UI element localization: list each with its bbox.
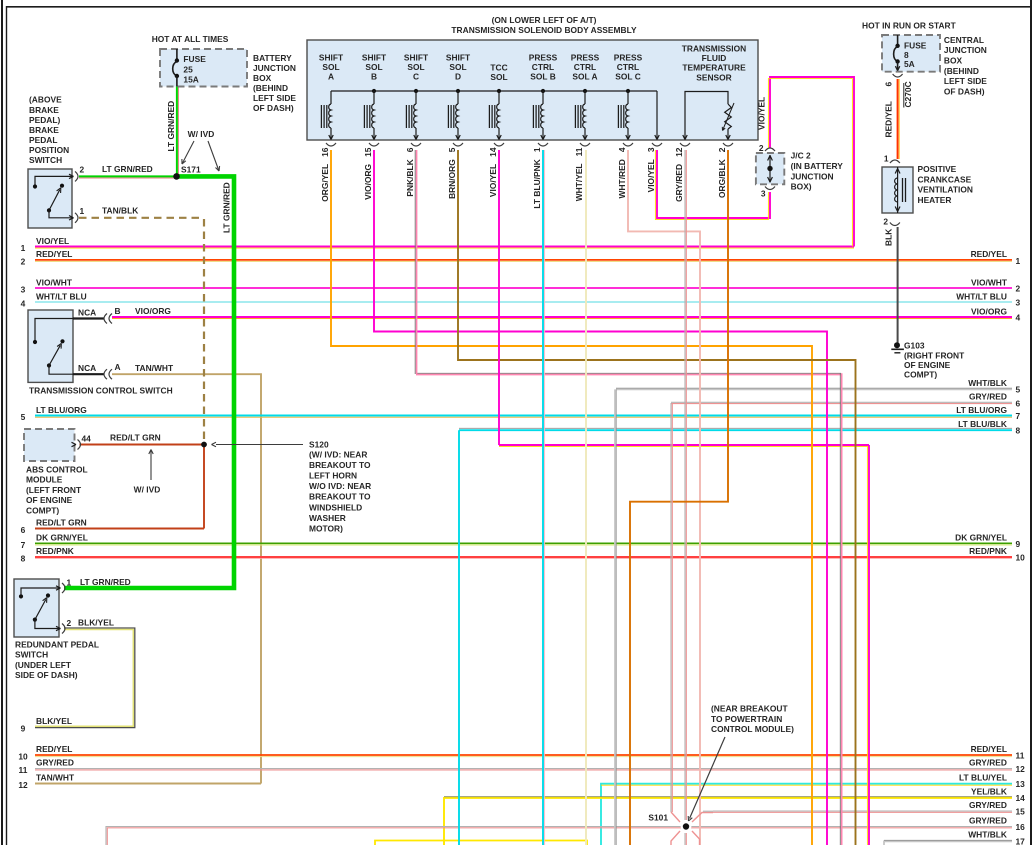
svg-text:TAN/WHT: TAN/WHT [36, 772, 75, 782]
J/C 2 pin 2 [765, 148, 775, 151]
brake pedal position switch pin 2 [69, 176, 74, 178]
svg-text:LT BLU/YEL: LT BLU/YEL [959, 773, 1007, 783]
svg-text:VIO/YEL 3: VIO/YEL 3 [646, 147, 656, 192]
redundant pedal switch box [14, 579, 59, 637]
positive crankcase ventilation heater box [882, 167, 913, 213]
svg-text:W/ IVD: W/ IVD [188, 129, 215, 139]
svg-text:1: 1 [21, 243, 26, 253]
svg-text:TO POWERTRAIN: TO POWERTRAIN [711, 714, 782, 724]
svg-text:POSITION: POSITION [29, 145, 69, 155]
svg-text:TRANSMISSION CONTROL SWITCH: TRANSMISSION CONTROL SWITCH [29, 385, 173, 395]
svg-text:TCC: TCC [490, 63, 507, 73]
wire LT GRN/RED from brake pedal position switch pin 2 to S171 [79, 175, 177, 177]
svg-text:3: 3 [21, 285, 26, 295]
svg-text:TEMPERATURE: TEMPERATURE [682, 63, 746, 73]
svg-text:15A: 15A [183, 75, 198, 85]
svg-text:1: 1 [1016, 256, 1021, 266]
wire WHT/BLK vertical from row right-5 [614, 389, 616, 845]
svg-text:RED/YEL: RED/YEL [971, 249, 1007, 259]
svg-text:LT GRN/RED: LT GRN/RED [80, 577, 131, 587]
svg-text:CTRL: CTRL [532, 62, 554, 72]
svg-text:10: 10 [18, 752, 28, 762]
svg-text:S171: S171 [181, 165, 201, 175]
svg-text:WHT/BLK: WHT/BLK [968, 829, 1007, 839]
J/C 2 pin 3 [765, 187, 775, 190]
svg-text:LT BLU/BLK: LT BLU/BLK [958, 419, 1007, 429]
wire TAN/WHT from transmission control switch pin A [112, 374, 261, 783]
svg-text:WHT/YEL 11: WHT/YEL 11 [574, 147, 584, 201]
svg-text:2: 2 [67, 618, 72, 628]
wire VIO/YEL solenoid pin 3 run to J/C 2 pin 3 [657, 150, 770, 218]
wire PNK/BLK solenoid pin 6 verticals [414, 150, 416, 374]
svg-text:12: 12 [18, 780, 28, 790]
svg-text:PEDAL: PEDAL [29, 135, 57, 145]
redundant pedal switch pin 2 [56, 629, 61, 631]
wire VIO/YEL loop from J/C 2 pin 2 to row left-1 [770, 77, 854, 247]
svg-text:SIDE OF DASH): SIDE OF DASH) [15, 670, 78, 680]
svg-text:CTRL: CTRL [617, 62, 639, 72]
svg-text:PRESS: PRESS [614, 53, 643, 63]
svg-text:JUNCTION: JUNCTION [944, 45, 987, 55]
PCV heater pin 2 [890, 223, 900, 226]
svg-text:C270C: C270C [903, 81, 913, 107]
svg-text:PRESS: PRESS [529, 53, 558, 63]
wire LT GRN/RED from fuse 25 to splice S171 [176, 86, 178, 176]
svg-text:CRANKCASE: CRANKCASE [918, 174, 972, 184]
svg-text:TRANSMISSION SOLENOID BODY ASS: TRANSMISSION SOLENOID BODY ASSEMBLY [451, 25, 637, 35]
svg-text:1: 1 [884, 154, 889, 164]
svg-text:11: 11 [19, 765, 28, 775]
svg-text:MOTOR): MOTOR) [309, 523, 343, 533]
svg-text:ORG/BLK 2: ORG/BLK 2 [717, 147, 727, 198]
transmission solenoid body assembly box [307, 40, 758, 140]
svg-text:SENSOR: SENSOR [696, 72, 732, 82]
ABS control module box [24, 429, 75, 461]
svg-text:8: 8 [1016, 425, 1021, 435]
svg-text:6: 6 [21, 525, 26, 535]
svg-text:GRY/RED: GRY/RED [969, 815, 1007, 825]
svg-text:3: 3 [1016, 298, 1021, 308]
wire GRY/RED row left-11 right-12 [35, 768, 1012, 770]
svg-text:G103: G103 [904, 340, 925, 350]
svg-text:4: 4 [1016, 313, 1021, 323]
wire LT BLU/PNK solenoid pin 1 run [542, 150, 544, 845]
svg-text:VIO/WHT: VIO/WHT [36, 278, 73, 288]
svg-text:BREAKOUT TO: BREAKOUT TO [309, 492, 371, 502]
svg-text:(LEFT FRONT: (LEFT FRONT [26, 485, 82, 495]
wire GRY/RED solenoid pin 12 run to splice S101 [684, 150, 686, 820]
transmission control switch pin A NCA [73, 373, 104, 375]
transmission control switch contacts [35, 319, 73, 341]
wire RED/YEL from fuse 8 to PCV heater pin 1 [897, 79, 899, 159]
wire DK GRN/YEL row left-7 right-9 [35, 542, 1012, 544]
svg-text:SWITCH: SWITCH [15, 650, 48, 660]
wire VIO/WHT row left-3 right-2 [35, 287, 1012, 289]
wire TAN/BLK dashed from brake pedal position switch pin 1 to S120 [79, 217, 204, 219]
central junction box (fuse 8) [882, 35, 940, 72]
wire ORG/YEL solenoid pin 16 run [331, 150, 812, 845]
svg-text:OF DASH): OF DASH) [944, 87, 985, 97]
svg-text:A: A [115, 362, 121, 372]
svg-text:2: 2 [21, 257, 26, 267]
svg-text:JUNCTION: JUNCTION [791, 171, 834, 181]
wire WHT/RED solenoid pin 4 run [628, 150, 700, 845]
PCV heater element [897, 167, 899, 213]
svg-text:A: A [328, 72, 334, 82]
svg-text:(W/ IVD: NEAR: (W/ IVD: NEAR [309, 450, 367, 460]
wire LT BLU/ORG row left-5 right-7 [35, 415, 1012, 417]
wire RED/YEL row left-10 right-11 [35, 754, 1012, 756]
svg-text:11: 11 [1016, 751, 1025, 761]
svg-text:C: C [413, 72, 419, 82]
svg-text:44: 44 [82, 434, 92, 444]
svg-text:14: 14 [1016, 793, 1026, 803]
wire YEL branch near bottom edge [375, 841, 587, 845]
svg-text:5: 5 [1016, 384, 1021, 394]
svg-text:PRESS: PRESS [571, 53, 600, 63]
svg-text:RED/PNK: RED/PNK [969, 546, 1007, 556]
svg-text:LT GRN/RED: LT GRN/RED [166, 101, 176, 152]
svg-text:4: 4 [21, 299, 26, 309]
svg-text:W/ IVD: W/ IVD [134, 485, 161, 495]
svg-text:12: 12 [1016, 764, 1026, 774]
svg-text:(IN BATTERY: (IN BATTERY [791, 161, 844, 171]
svg-text:(ON LOWER LEFT OF A/T): (ON LOWER LEFT OF A/T) [492, 15, 597, 25]
svg-text:GRY/RED 12: GRY/RED 12 [674, 147, 684, 202]
page frame left outer border [1, 0, 3, 845]
solenoid box pin connectors and labels [326, 143, 336, 146]
svg-text:OF ENGINE: OF ENGINE [26, 495, 73, 505]
svg-text:SHIFT: SHIFT [446, 53, 471, 63]
svg-text:9: 9 [1016, 539, 1021, 549]
svg-text:2: 2 [80, 165, 85, 175]
svg-text:NCA: NCA [78, 363, 96, 373]
svg-text:LT BLU/PNK 1: LT BLU/PNK 1 [532, 147, 542, 208]
svg-text:8: 8 [21, 554, 26, 564]
brake pedal position switch box [28, 169, 72, 228]
svg-text:6: 6 [884, 82, 894, 87]
svg-text:HEATER: HEATER [918, 195, 952, 205]
svg-text:GRY/RED: GRY/RED [969, 758, 1007, 768]
svg-text:LT BLU/ORG: LT BLU/ORG [956, 405, 1007, 415]
svg-text:SOL: SOL [490, 72, 507, 82]
svg-text:17: 17 [1016, 837, 1026, 845]
PCV heater pin 1 [890, 160, 900, 163]
wire LT BLU/BLK vertical from row right-8 [458, 430, 460, 845]
svg-text:BOX: BOX [944, 56, 963, 66]
svg-text:7: 7 [1016, 411, 1021, 421]
svg-text:OF ENGINE: OF ENGINE [904, 360, 951, 370]
transmission control switch pin B NCA [73, 317, 104, 319]
svg-text:SHIFT: SHIFT [362, 53, 387, 63]
svg-text:ABS CONTROL: ABS CONTROL [26, 464, 88, 474]
svg-text:VIO/WHT: VIO/WHT [971, 278, 1008, 288]
page frame right border [1030, 0, 1032, 845]
svg-text:CONTROL MODULE): CONTROL MODULE) [711, 724, 794, 734]
svg-text:10: 10 [1016, 553, 1026, 563]
svg-text:PNK/BLK 6: PNK/BLK 6 [405, 147, 415, 196]
splice S171 [173, 173, 180, 180]
svg-text:DK GRN/YEL: DK GRN/YEL [36, 533, 88, 543]
wire BRN/ORG solenoid pin 5 run [458, 150, 856, 845]
svg-text:SOL: SOL [407, 62, 424, 72]
svg-text:16: 16 [1016, 822, 1026, 832]
svg-text:VIO/YEL: VIO/YEL [36, 236, 69, 246]
svg-text:HOT IN RUN OR START: HOT IN RUN OR START [862, 21, 957, 31]
wire VIO/YEL solenoid pin 14 verticals [498, 150, 500, 445]
svg-text:ORG/YEL 16: ORG/YEL 16 [320, 147, 330, 202]
svg-text:(UNDER LEFT: (UNDER LEFT [15, 660, 72, 670]
svg-text:WHT/LT BLU: WHT/LT BLU [36, 292, 87, 302]
wire GRY/RED row right-16 through splice S101 [106, 827, 1012, 845]
svg-text:LEFT SIDE: LEFT SIDE [944, 76, 987, 86]
svg-text:B: B [371, 72, 377, 82]
svg-text:RED/YEL: RED/YEL [36, 744, 72, 754]
svg-text:LT GRN/RED: LT GRN/RED [102, 164, 153, 174]
svg-text:VIO/ORG 15: VIO/ORG 15 [363, 147, 373, 200]
page frame top border [6, 6, 1032, 8]
J/C 2 internal bus [769, 155, 771, 183]
svg-text:BRAKE: BRAKE [29, 125, 59, 135]
svg-text:(ABOVE: (ABOVE [29, 95, 62, 105]
battery junction box (fuse 25) [160, 49, 247, 87]
svg-text:D: D [455, 72, 461, 82]
svg-text:VIO/YEL 14: VIO/YEL 14 [488, 147, 498, 197]
svg-text:PEDAL): PEDAL) [29, 115, 60, 125]
wire GRY/RED row right-15 from splice S101 [713, 810, 1012, 812]
svg-text:SOL C: SOL C [615, 72, 641, 82]
svg-text:BRAKE: BRAKE [29, 105, 59, 115]
svg-text:BATTERY: BATTERY [253, 53, 292, 63]
svg-text:(RIGHT FRONT: (RIGHT FRONT [904, 350, 965, 360]
svg-text:RED/YEL: RED/YEL [884, 101, 894, 137]
svg-text:B: B [115, 306, 121, 316]
svg-text:VENTILATION: VENTILATION [918, 185, 973, 195]
wire PNK/BLK from solenoid pin 6 horizontal run [416, 372, 841, 374]
svg-text:HOT AT ALL TIMES: HOT AT ALL TIMES [152, 34, 229, 44]
svg-text:SOL B: SOL B [530, 72, 556, 82]
svg-text:SOL A: SOL A [572, 72, 597, 82]
svg-text:BOX): BOX) [791, 182, 812, 192]
svg-text:TAN/WHT: TAN/WHT [135, 363, 174, 373]
svg-text:TRANSMISSION: TRANSMISSION [682, 44, 746, 54]
svg-text:(BEHIND: (BEHIND [944, 66, 979, 76]
svg-text:1: 1 [80, 206, 85, 216]
svg-text:RED/LT GRN: RED/LT GRN [36, 518, 87, 528]
svg-text:RED/YEL: RED/YEL [971, 744, 1007, 754]
splice S101 branches [671, 812, 680, 822]
svg-text:SHIFT: SHIFT [319, 53, 344, 63]
wire YEL/BLK row right-14 [444, 798, 1012, 845]
svg-text:COMPT): COMPT) [904, 370, 937, 380]
svg-text:BRN/ORG 5: BRN/ORG 5 [447, 147, 457, 199]
svg-text:1: 1 [67, 578, 72, 588]
svg-text:5: 5 [21, 412, 26, 422]
svg-text:5A: 5A [904, 59, 915, 69]
svg-text:(BEHIND: (BEHIND [253, 83, 288, 93]
svg-text:SHIFT: SHIFT [404, 53, 429, 63]
svg-text:SOL: SOL [365, 62, 382, 72]
svg-text:SOL: SOL [322, 62, 339, 72]
svg-text:2: 2 [759, 143, 764, 153]
svg-text:TAN/BLK: TAN/BLK [102, 205, 138, 215]
svg-text:BREAKOUT TO: BREAKOUT TO [309, 460, 371, 470]
wire ORG/BLK solenoid pin 2 run [630, 150, 728, 845]
svg-text:BOX: BOX [253, 73, 272, 83]
svg-text:DK GRN/YEL: DK GRN/YEL [955, 533, 1007, 543]
svg-text:RED/PNK: RED/PNK [36, 546, 74, 556]
svg-text:BLK: BLK [884, 229, 894, 246]
brake pedal position switch contacts [35, 176, 72, 184]
splice S120 [201, 442, 207, 448]
svg-text:J/C 2: J/C 2 [791, 151, 811, 161]
ABS control module pin 44 [72, 445, 77, 447]
svg-text:VIO/YEL: VIO/YEL [757, 97, 767, 130]
svg-text:LT BLU/ORG: LT BLU/ORG [36, 405, 87, 415]
wire WHT/YEL solenoid pin 11 run [585, 150, 587, 845]
svg-text:25: 25 [183, 64, 193, 74]
svg-text:LT GRN/RED: LT GRN/RED [222, 182, 232, 233]
wire GRY/RED vertical from row right-6 to splice S101 [670, 403, 672, 812]
splice S101 dot [681, 821, 692, 832]
svg-text:RED/YEL: RED/YEL [36, 249, 72, 259]
solenoid bus drop to pin 3 [656, 91, 658, 139]
svg-text:LEFT SIDE: LEFT SIDE [253, 93, 296, 103]
wire LT BLU/BLK row right-8 [459, 427, 1012, 429]
wire GRY/RED row right-6 [671, 401, 1012, 403]
junction block J/C 2 box [756, 153, 784, 184]
svg-text:15: 15 [1016, 807, 1026, 817]
svg-text:OF DASH): OF DASH) [253, 103, 294, 113]
svg-text:GRY/RED: GRY/RED [969, 800, 1007, 810]
svg-text:LEFT HORN: LEFT HORN [309, 471, 357, 481]
wire BLK/YEL row left-9 from redundant pedal switch pin 2 [35, 628, 135, 728]
svg-text:GRY/RED: GRY/RED [36, 758, 74, 768]
page frame left inner border [6, 6, 8, 845]
wire RED/LT GRN from ABS control module pin 44 through S120 to row left-6 [80, 444, 205, 446]
svg-text:SWITCH: SWITCH [29, 155, 62, 165]
redundant pedal switch pin 1 [56, 588, 61, 590]
wire VIO/YEL from solenoid pin 14 horizontal run [499, 444, 869, 446]
wire WHT/LT BLU row left-4 right-3 [35, 301, 1012, 303]
svg-text:VIO/ORG: VIO/ORG [135, 306, 171, 316]
redundant pedal switch contacts [21, 588, 59, 594]
svg-text:WASHER: WASHER [309, 513, 346, 523]
wire TAN/WHT row left-12 [35, 783, 261, 785]
svg-text:CENTRAL: CENTRAL [944, 35, 984, 45]
wire WHT/BLK row right-17 [884, 841, 1012, 845]
solenoid supply bus [331, 90, 657, 92]
svg-text:13: 13 [1016, 779, 1026, 789]
wire LT BLU/YEL row right-13 [601, 784, 1012, 845]
wire LT GRN/RED heavy run from S171 to redundant pedal switch pin 1 [64, 176, 234, 588]
ground G103 [894, 342, 900, 348]
wire WHT/BLK row right-5 [616, 387, 1012, 389]
wire VIO/ORG row right-4 from transmission control switch pin B [112, 316, 1012, 318]
svg-text:WHT/BLK: WHT/BLK [968, 378, 1007, 388]
svg-text:3: 3 [761, 189, 766, 199]
svg-text:2: 2 [883, 217, 888, 227]
svg-text:JUNCTION: JUNCTION [253, 63, 296, 73]
svg-text:CTRL: CTRL [574, 62, 596, 72]
svg-text:RED/LT GRN: RED/LT GRN [110, 433, 161, 443]
svg-text:VIO/ORG: VIO/ORG [971, 307, 1007, 317]
svg-text:W/O IVD: NEAR: W/O IVD: NEAR [309, 481, 371, 491]
svg-text:BLK/YEL: BLK/YEL [36, 716, 72, 726]
wire VIO/ORG solenoid pin 15 run [374, 150, 827, 845]
svg-text:(NEAR BREAKOUT: (NEAR BREAKOUT [711, 704, 788, 714]
wire BLK from PCV heater pin 2 to ground G103 [897, 227, 899, 344]
svg-text:S101: S101 [648, 813, 668, 823]
svg-text:2: 2 [1016, 284, 1021, 294]
svg-text:6: 6 [1016, 399, 1021, 409]
svg-text:MODULE: MODULE [26, 475, 63, 485]
svg-text:COMPT): COMPT) [26, 506, 59, 516]
fuse 8 element [897, 35, 899, 45]
svg-text:BLK/YEL: BLK/YEL [78, 618, 114, 628]
svg-text:9: 9 [21, 724, 26, 734]
svg-text:FLUID: FLUID [702, 53, 727, 63]
svg-text:POSITIVE: POSITIVE [918, 164, 957, 174]
svg-text:FUSE: FUSE [183, 54, 206, 64]
svg-text:YEL/BLK: YEL/BLK [971, 786, 1007, 796]
svg-text:WHT/RED 4: WHT/RED 4 [617, 147, 627, 198]
svg-text:WINDSHIELD: WINDSHIELD [309, 502, 362, 512]
svg-text:WHT/LT BLU: WHT/LT BLU [956, 292, 1007, 302]
fuse 25 element [176, 49, 178, 60]
svg-text:SOL: SOL [449, 62, 466, 72]
S120 arrow and note [216, 444, 303, 446]
svg-text:REDUNDANT PEDAL: REDUNDANT PEDAL [15, 639, 99, 649]
brake pedal position switch pin 1 [69, 218, 74, 220]
wire RED/LT GRN row left-6 [35, 528, 204, 530]
wire RED/YEL row left-2 right-1 [35, 259, 1012, 261]
svg-text:NCA: NCA [78, 308, 96, 318]
svg-text:S120: S120 [309, 440, 329, 450]
svg-text:7: 7 [21, 540, 26, 550]
wire VIO/YEL row left-1 (to J/C 2 loop) [35, 246, 854, 248]
svg-text:GRY/RED: GRY/RED [969, 392, 1007, 402]
transmission control switch box [28, 310, 73, 382]
wire RED/PNK row left-8 right-10 [35, 556, 1012, 558]
